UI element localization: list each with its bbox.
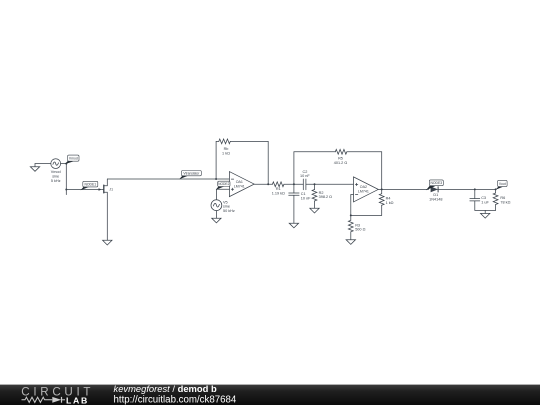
svg-text:5 kHz: 5 kHz: [51, 179, 61, 183]
flag NODE1: [81, 181, 98, 190]
svg-text:OA1: OA1: [236, 180, 243, 184]
svg-text:J1: J1: [109, 188, 113, 192]
label C1 value: [301, 192, 311, 200]
svg-text:401.2 Ω: 401.2 Ω: [334, 161, 348, 165]
wire feedback right and down to output: [230, 141, 268, 184]
ground (below R3): [346, 240, 355, 245]
label R2 value: [319, 191, 333, 199]
ground (below J1 source): [103, 240, 112, 245]
ground (left of Vmod source): [30, 164, 39, 172]
op-amp OA1: [229, 172, 254, 197]
ground (output network): [481, 210, 490, 218]
svg-text:sine: sine: [52, 175, 59, 179]
node junction NODE1: [65, 189, 67, 191]
resistor R6: [493, 189, 498, 210]
svg-text:1.19 kΩ: 1.19 kΩ: [272, 192, 285, 196]
svg-text:Vout: Vout: [499, 182, 506, 186]
svg-text:1 kΩ: 1 kΩ: [386, 201, 394, 205]
node junction C3 tap: [474, 188, 476, 190]
wire OA1 + input: [216, 188, 229, 190]
svg-text:10 nF: 10 nF: [300, 174, 310, 178]
capacitor C2 (series): [303, 179, 306, 190]
wire + input down to V5: [215, 189, 217, 200]
svg-text:V5: V5: [223, 200, 228, 204]
svg-text:LM741: LM741: [358, 190, 369, 194]
wire ground to Vmod source: [35, 163, 51, 165]
svg-text:78 kΩ: 78 kΩ: [500, 201, 510, 205]
resistor R5: [335, 149, 347, 154]
label R1 value: [272, 187, 285, 195]
label V5 value: [223, 200, 235, 213]
label R5 value: [334, 157, 348, 165]
node junction R3 tap: [350, 214, 352, 216]
svg-text:500 Ω: 500 Ω: [355, 228, 365, 232]
svg-text:Vmod: Vmod: [69, 157, 78, 161]
label R3 value: [355, 223, 365, 231]
resistor R4: [379, 189, 384, 215]
label C3 value: [481, 196, 489, 204]
svg-text:Rb: Rb: [224, 147, 229, 151]
svg-text:kevmegforest / demod b: kevmegforest / demod b: [114, 383, 217, 394]
svg-text:1 uF: 1 uF: [481, 201, 489, 205]
node junction R6 tap: [495, 188, 497, 190]
flag NODE2: [216, 181, 230, 190]
op-amp OA2: [354, 177, 379, 202]
wire source to node: [61, 163, 67, 165]
label D1 value: [429, 193, 442, 201]
svg-text:OA2: OA2: [360, 185, 367, 189]
node junction at Vmod flag: [65, 163, 67, 165]
resistor R2: [312, 184, 317, 208]
svg-text:sine: sine: [223, 205, 230, 209]
svg-text:10 nF: 10 nF: [301, 196, 311, 200]
node junction output/feedback: [267, 183, 269, 185]
voltage source V5 (sine): [211, 200, 222, 211]
flag Vout: [496, 180, 508, 189]
flag NODE3: [426, 180, 443, 190]
wire feedback up: [216, 141, 219, 179]
wire D1 to output node: [438, 188, 496, 190]
wire OA1 output: [254, 183, 272, 185]
node junction feedback tap: [215, 178, 217, 180]
transistor J1: [99, 179, 114, 240]
capacitor C1 (to ground): [289, 184, 299, 223]
resistor Rb: [219, 139, 231, 144]
ground (below V5): [212, 218, 221, 223]
label V_mod value text: [51, 170, 61, 183]
node junction (R1/C1/R5 tap): [293, 183, 295, 185]
wire OA2 - input loop: [351, 195, 382, 216]
node junction R2 tap: [314, 183, 316, 185]
label R4 value: [386, 197, 394, 205]
svg-text:Vmod: Vmod: [51, 170, 61, 174]
label R6 value: [500, 196, 510, 204]
flag Vtranslator: [179, 171, 201, 180]
node junction OA2 output: [381, 188, 383, 190]
svg-text:NODE1: NODE1: [84, 182, 96, 186]
diode D1: [431, 187, 439, 193]
wire R1 to C2: [284, 183, 303, 185]
svg-text:NODE2: NODE2: [218, 182, 230, 186]
wire bottom C3-R6: [475, 209, 496, 211]
svg-text:LM741: LM741: [234, 185, 245, 189]
svg-text:1 kΩ: 1 kΩ: [222, 152, 230, 156]
svg-text:398.2 Ω: 398.2 Ω: [319, 195, 333, 199]
resistor R3: [348, 215, 353, 239]
footer logo resistor-diode icon: [22, 397, 66, 403]
svg-text:NODE3: NODE3: [430, 181, 442, 185]
svg-text:50 kHz: 50 kHz: [223, 209, 235, 213]
svg-text:LAB: LAB: [66, 395, 89, 405]
wire junction up to R5: [294, 152, 335, 185]
wire V5 to ground: [215, 211, 217, 219]
svg-text:Vtranslator: Vtranslator: [183, 171, 200, 175]
label Rb value: [222, 147, 230, 155]
wire R5 right and down to OA2 output: [347, 152, 382, 190]
ground (below R2): [310, 208, 319, 213]
wire C2 to OA2 + input: [306, 183, 354, 185]
wire OA2 output to D1: [378, 188, 428, 190]
wire down from Vmod node: [65, 164, 67, 195]
voltage source V_mod (sine): [51, 159, 61, 169]
resistor R1: [272, 182, 284, 187]
flag Vmod: [65, 155, 79, 164]
capacitor C3 (to ground): [470, 189, 480, 210]
wire gate of J1: [66, 189, 98, 191]
footer bar: [0, 385, 540, 405]
ground (below C1): [289, 223, 298, 228]
svg-text:http://circuitlab.com/ck87684: http://circuitlab.com/ck87684: [114, 394, 237, 405]
svg-text:1N4148: 1N4148: [429, 198, 442, 202]
wire main J1 drain to OA1 inverting input: [107, 178, 229, 180]
label C2 value: [300, 170, 310, 178]
